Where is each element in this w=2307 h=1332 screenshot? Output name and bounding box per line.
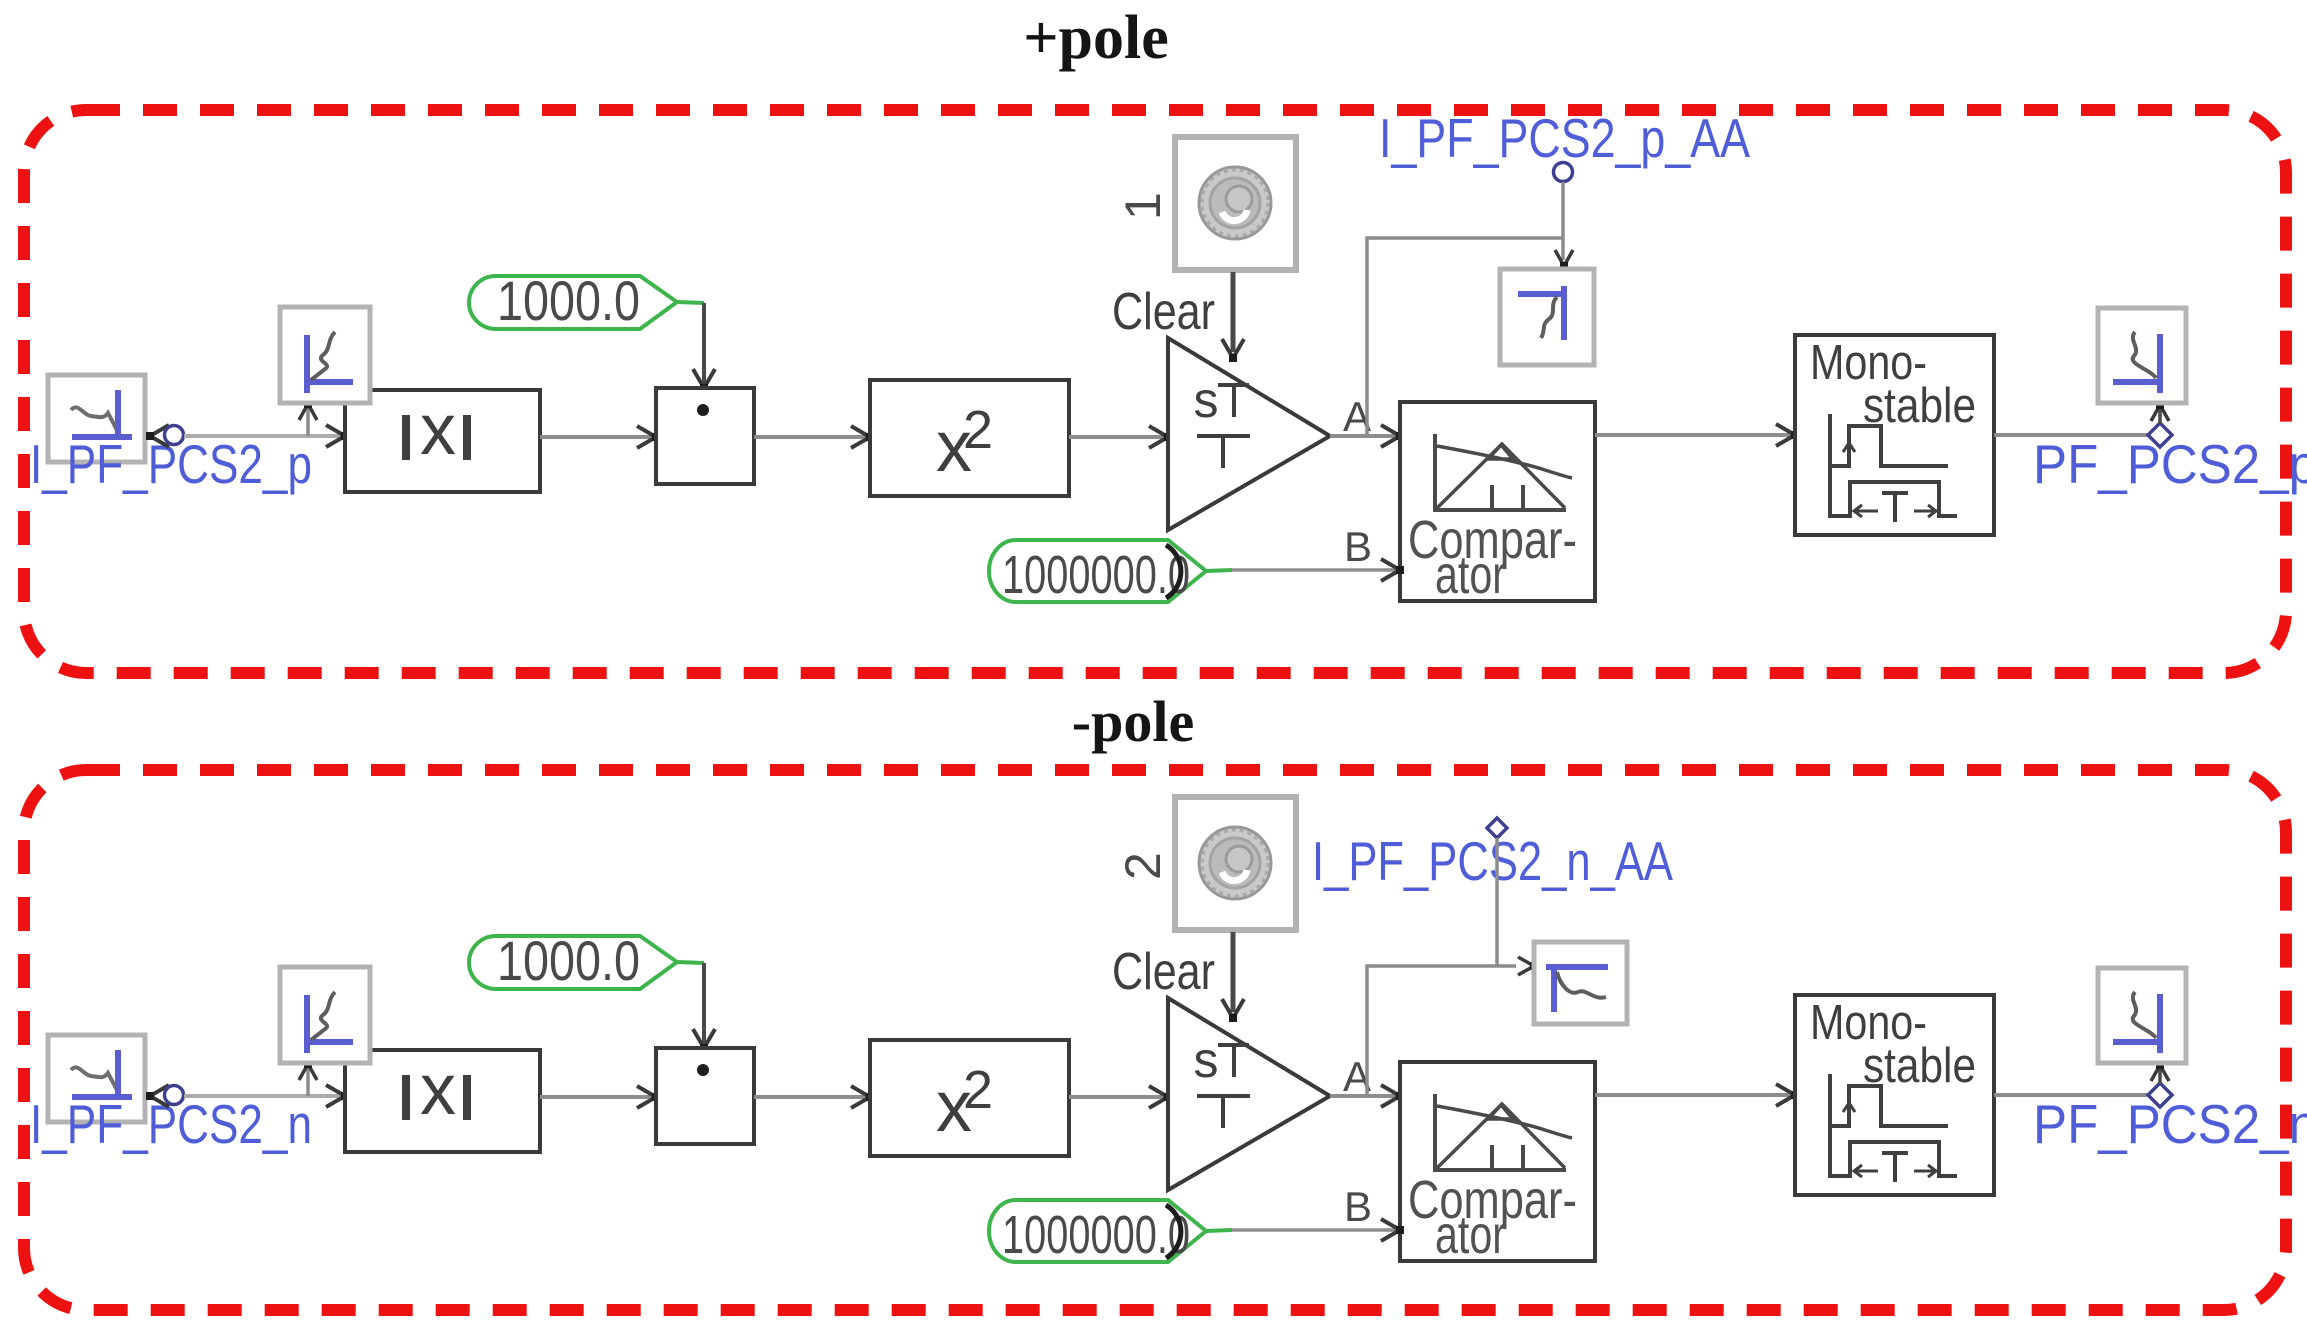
arrow into squarer <box>851 1086 874 1108</box>
wire dial to integrator clear input <box>1231 932 1236 1012</box>
wire stub up to scope icon <box>306 1068 310 1096</box>
wire AA diamond down to junction <box>1495 838 1499 966</box>
wire comparator to monostable <box>1595 433 1793 437</box>
node circle under AA label <box>1554 163 1573 182</box>
svg-text:1000.0: 1000.0 <box>497 269 640 332</box>
dial selector component <box>1175 797 1296 930</box>
block Comparator <box>1400 1062 1595 1265</box>
wire node to output meter <box>2158 1068 2162 1084</box>
block Monostable <box>1795 335 1994 535</box>
svg-text:ator: ator <box>1435 1205 1506 1265</box>
svg-text:Clear: Clear <box>1112 943 1215 1001</box>
svg-text:-pole: -pole <box>1072 689 1194 754</box>
wire input to ABS <box>184 1094 345 1098</box>
arrow clear into integrator <box>1222 999 1244 1022</box>
scope icon box (AA monitor) <box>1500 269 1594 365</box>
arrow up into output meter <box>2151 401 2169 421</box>
block multiplier <box>656 388 754 484</box>
wire multiplier to squarer <box>754 435 868 439</box>
wire monostable to output node <box>1994 433 2150 437</box>
node circle (wire-label connection) <box>165 1086 184 1105</box>
integrator (resettable) triangle <box>1168 338 1330 530</box>
arrow clear into integrator <box>1222 339 1244 362</box>
arrow down into AA scope box <box>1555 250 1573 270</box>
svg-text:1: 1 <box>1115 192 1171 220</box>
wire node to output meter <box>2158 408 2162 424</box>
block Monostable <box>1795 995 1994 1195</box>
wire stub up to scope icon <box>306 408 310 436</box>
wire ABS to multiplier <box>540 1095 654 1099</box>
wire dial to integrator clear input <box>1231 272 1236 352</box>
block ABS |X| <box>345 390 540 492</box>
svg-text:I_PF_PCS2_n_AA: I_PF_PCS2_n_AA <box>1312 830 1673 892</box>
output node diamond <box>2148 423 2172 447</box>
wire input to ABS <box>184 434 345 438</box>
constant 1000000.0 (threshold) <box>989 1200 1206 1265</box>
meter icon (input channel I_PF_PCS2_p) <box>48 375 145 462</box>
svg-text:1000.0: 1000.0 <box>497 929 640 992</box>
svg-text:s: s <box>1194 1032 1219 1088</box>
arrow into comparator B <box>1381 559 1404 581</box>
svg-text:x: x <box>420 390 456 470</box>
arrow into multiplier <box>637 1086 660 1108</box>
arrow into integrator <box>1149 426 1172 448</box>
wire monostable to output node <box>1994 1093 2150 1097</box>
svg-text:PF_PCS2_p: PF_PCS2_p <box>2033 433 2307 495</box>
output node diamond <box>2148 1083 2172 1107</box>
wire comparator to monostable <box>1595 1093 1793 1097</box>
svg-text:+pole: +pole <box>1023 4 1169 72</box>
arrow into ABS block <box>326 425 349 447</box>
arrow into input meter <box>146 1085 169 1107</box>
p-pole enclosure (red dashed boundary) <box>24 110 2286 673</box>
arrow down into multiplier <box>693 1029 715 1052</box>
wire squarer to integrator <box>1069 1095 1166 1099</box>
arrow into integrator <box>1149 1086 1172 1108</box>
n-pole enclosure (red dashed boundary) <box>24 770 2286 1310</box>
arrow into comparator A <box>1381 425 1404 447</box>
wire constant to multiplier <box>677 302 704 303</box>
svg-text:B: B <box>1344 523 1372 570</box>
meter icon (output channel PF_PCS2_n) <box>2098 968 2186 1063</box>
arrow into monostable <box>1776 1084 1799 1106</box>
wire constant to multiplier <box>677 962 704 963</box>
svg-text:1000000.0: 1000000.0 <box>1002 1205 1190 1265</box>
block X squared <box>870 1040 1069 1156</box>
scope icon box (input monitor) <box>280 967 370 1063</box>
arrow down into multiplier <box>693 369 715 392</box>
wire ABS to multiplier <box>540 435 654 439</box>
svg-text:B: B <box>1344 1183 1372 1230</box>
arrow up into scope icon <box>299 1060 317 1080</box>
svg-text:2: 2 <box>963 1060 993 1120</box>
wire threshold to comparator B <box>1206 570 1232 571</box>
scope icon box (AA monitor, -pole) <box>1534 942 1627 1024</box>
arrow into squarer <box>851 426 874 448</box>
arrow up into output meter <box>2151 1061 2169 1081</box>
constant 1000.0 (real constant) <box>469 269 677 332</box>
svg-text:s: s <box>1194 372 1219 428</box>
meter icon (input channel I_PF_PCS2_n) <box>48 1035 145 1122</box>
arrow into ABS block <box>326 1085 349 1107</box>
arrow up into scope icon <box>299 400 317 420</box>
arrow right into AA scope box <box>1518 957 1538 975</box>
constant 1000.0 (real constant) <box>469 929 677 992</box>
block multiplier <box>656 1048 754 1144</box>
arrow into monostable <box>1776 424 1799 446</box>
node diamond above AA label <box>1487 818 1507 838</box>
meter icon (output channel PF_PCS2_p) <box>2098 308 2186 403</box>
arrow into comparator A <box>1381 1085 1404 1107</box>
svg-text:Clear: Clear <box>1112 283 1215 341</box>
svg-text:I_PF_PCS2_p_AA: I_PF_PCS2_p_AA <box>1379 107 1750 169</box>
dial selector component <box>1175 137 1296 270</box>
constant 1000000.0 (threshold) <box>989 540 1206 605</box>
wire integrator to comparator input A <box>1330 434 1398 438</box>
svg-text:2: 2 <box>1115 852 1171 880</box>
wire squarer to integrator <box>1069 435 1166 439</box>
svg-text:1000000.0: 1000000.0 <box>1002 545 1190 605</box>
block ABS |X| <box>345 1050 540 1152</box>
svg-text:2: 2 <box>963 400 993 460</box>
svg-text:x: x <box>420 1050 456 1130</box>
wire AA label down to scope <box>1561 182 1565 260</box>
wire threshold to comparator B <box>1206 1230 1232 1231</box>
block X squared <box>870 380 1069 496</box>
block Comparator <box>1400 402 1595 605</box>
svg-text:ator: ator <box>1435 545 1506 605</box>
wire feedback A up and right (to record channel) <box>1367 238 1563 436</box>
node circle (wire-label connection) <box>165 426 184 445</box>
integrator (resettable) triangle <box>1168 998 1330 1190</box>
svg-text:PF_PCS2_n: PF_PCS2_n <box>2033 1093 2307 1155</box>
arrow into input meter <box>146 425 169 447</box>
arrow into comparator B <box>1381 1219 1404 1241</box>
wire feedback A up and right (to record channel, -pole) <box>1367 966 1516 1096</box>
wire integrator to comparator input A <box>1330 1094 1398 1098</box>
wire multiplier to squarer <box>754 1095 868 1099</box>
arrow into multiplier <box>637 426 660 448</box>
scope icon box (input monitor) <box>280 307 370 403</box>
